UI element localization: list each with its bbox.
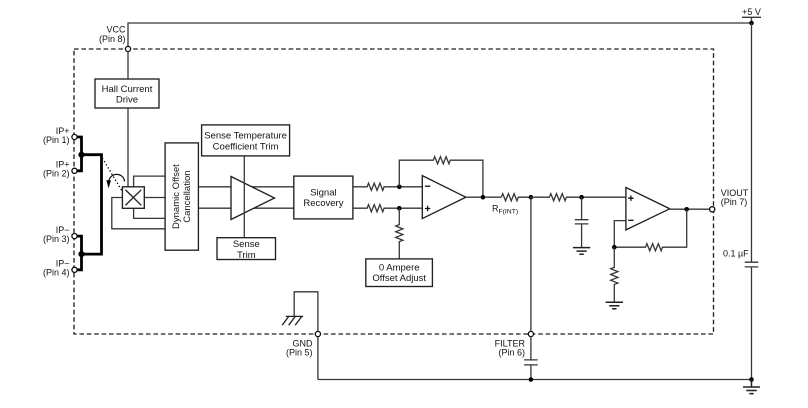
IP- (Pin 3) label bbox=[43, 225, 70, 244]
svg-text:Coefficient Trim: Coefficient Trim bbox=[213, 141, 279, 152]
wire: cap tap down to capacitor C1 bbox=[581, 197, 583, 220]
junction dot at +5V rail bbox=[749, 21, 754, 26]
wire: Hall element bottom to Dynamic Offset Cancellation bbox=[134, 208, 166, 218]
svg-text:(Pin 3): (Pin 3) bbox=[43, 234, 70, 244]
svg-text:Sense Temperature: Sense Temperature bbox=[204, 131, 287, 142]
svg-text:Hall Current: Hall Current bbox=[102, 84, 153, 95]
Hall element (X box) bbox=[122, 187, 144, 209]
wire: internal ground net to GND pin bbox=[294, 292, 318, 380]
junction dot cap tap bbox=[579, 195, 584, 200]
svg-text:Drive: Drive bbox=[116, 95, 138, 106]
svg-text:(Pin 8): (Pin 8) bbox=[99, 34, 126, 44]
svg-text:0 Ampere: 0 Ampere bbox=[379, 263, 420, 274]
junction dot current path bottom bbox=[78, 251, 84, 257]
dashed IC boundary bbox=[74, 49, 714, 334]
svg-text:Offset Adjust: Offset Adjust bbox=[372, 273, 426, 284]
svg-text:Signal: Signal bbox=[310, 187, 336, 198]
VCC label bbox=[99, 25, 126, 44]
svg-text:+5 V: +5 V bbox=[742, 7, 761, 17]
svg-text:(Pin 4): (Pin 4) bbox=[43, 268, 70, 278]
svg-text:0.1 µF: 0.1 µF bbox=[723, 249, 749, 259]
svg-text:(Pin 7): (Pin 7) bbox=[721, 197, 748, 207]
op-amp U2 buffer bbox=[626, 188, 670, 230]
wire: VCC pin to Hall Current Drive bbox=[127, 52, 129, 79]
svg-text:(Pin 1): (Pin 1) bbox=[43, 135, 70, 145]
junction dot filter tap bbox=[529, 195, 534, 200]
GND label bbox=[286, 339, 313, 358]
resistor R7 to ground bbox=[611, 247, 618, 302]
wire: FILTER pin to external capacitor bbox=[530, 337, 532, 360]
wire: ground rail along bottom bbox=[318, 379, 752, 381]
capacitor C1 bbox=[575, 220, 589, 224]
VIOUT label bbox=[721, 188, 749, 207]
chassis ground symbol bbox=[282, 316, 303, 325]
IP- (Pin 4) label bbox=[43, 259, 70, 278]
pin VCC (Pin 8) bbox=[125, 46, 130, 51]
pin FILTER (Pin 6) bbox=[528, 331, 533, 336]
svg-text:Recovery: Recovery bbox=[303, 198, 343, 209]
junction dot U2 output bbox=[684, 207, 689, 212]
amplifier A1 bbox=[231, 177, 275, 220]
+5V supply terminal bar bbox=[742, 17, 761, 23]
dotted flux coupling arrow bbox=[103, 159, 122, 191]
pin VIOUT (Pin 7) bbox=[710, 207, 715, 212]
wire: op-amp U2 output to VIOUT bbox=[670, 208, 710, 210]
pin IP- (Pin 3) bbox=[72, 234, 77, 239]
wire: DOC to signal recovery (bottom) bbox=[198, 207, 293, 209]
Signal Recovery box bbox=[294, 176, 353, 219]
feedback wire U2 with resistor R6 bbox=[614, 209, 686, 251]
earth ground symbol (C1) bbox=[573, 248, 590, 255]
thick current path pins 3-4 bbox=[77, 236, 81, 270]
wire and resistor R1: signal recovery to op-amp minus bbox=[353, 183, 422, 190]
wire: filter branch down to FILTER pin bbox=[530, 197, 532, 334]
earth ground symbol (supply) bbox=[743, 380, 760, 394]
wire: op-amp U1 output bbox=[466, 196, 502, 198]
external filter capacitor C2 bbox=[524, 360, 538, 365]
pin IP+ (Pin 2) bbox=[72, 168, 77, 173]
wire: Hall element right to Dynamic Offset Cancellation bbox=[144, 197, 165, 199]
Dynamic Offset Cancellation box bbox=[165, 143, 198, 250]
FILTER label bbox=[495, 338, 526, 357]
svg-text:(Pin 6): (Pin 6) bbox=[498, 347, 525, 357]
wire: capacitor C2 to ground rail bbox=[530, 365, 532, 380]
pin GND (Pin 5) bbox=[315, 331, 320, 336]
wire and resistor R2: signal recovery to op-amp plus bbox=[353, 205, 422, 212]
svg-text:Trim: Trim bbox=[237, 250, 256, 261]
thick current path pins 1-2 bbox=[77, 137, 81, 171]
Sense Temperature Coefficient Trim box bbox=[202, 125, 290, 156]
wire: +5V rail down to bypass capacitor bbox=[751, 23, 753, 262]
svg-text:Sense: Sense bbox=[233, 239, 260, 250]
resistor RF(INT) bbox=[501, 194, 531, 201]
op-amp U1 bbox=[422, 176, 466, 219]
junction dot C2 ground bbox=[529, 377, 534, 382]
svg-text:RF(INT): RF(INT) bbox=[492, 204, 518, 216]
junction dot current path top bbox=[78, 152, 84, 158]
earth ground symbol (R7) bbox=[606, 302, 623, 309]
svg-text:Cancellation: Cancellation bbox=[182, 170, 193, 222]
wire: bypass capacitor to ground rail bbox=[751, 267, 753, 380]
wire: VCC pin up and over to +5V rail bbox=[128, 23, 752, 49]
junction dot offset tap bbox=[397, 206, 402, 211]
0 Ampere Offset Adjust box bbox=[366, 259, 433, 287]
wire and resistor R5 to buffer bbox=[531, 194, 626, 201]
wire and resistor R4 down to offset adjust bbox=[396, 208, 403, 259]
wire: temperature trim through amplifier to sense trim bbox=[243, 156, 245, 238]
arc arrowhead bbox=[106, 180, 111, 188]
junction dot feedback tap bbox=[397, 185, 402, 190]
junction dot feedback divider bbox=[612, 245, 617, 250]
svg-text:(Pin 2): (Pin 2) bbox=[43, 169, 70, 179]
wire: Hall Current Drive down to Hall element bbox=[127, 108, 129, 187]
wire: Hall element left loop to Dynamic Offset Cancellation bbox=[112, 198, 165, 229]
svg-text:Dynamic Offset: Dynamic Offset bbox=[171, 164, 182, 229]
IP+ (Pin 1) label bbox=[43, 126, 70, 145]
Hall Current Drive box bbox=[95, 79, 159, 108]
wire: capacitor C1 to ground bbox=[581, 224, 583, 248]
wire: DOC to signal recovery (top) bbox=[198, 186, 293, 188]
flux rotation arc bbox=[109, 174, 125, 182]
wire: Hall element top to Dynamic Offset Cancellation bbox=[134, 176, 166, 187]
pin IP+ (Pin 1) bbox=[72, 134, 77, 139]
capacitor C_BYP 0.1 uF bbox=[745, 262, 759, 267]
pin IP- (Pin 4) bbox=[72, 267, 77, 272]
junction dot U1 output bbox=[481, 195, 486, 200]
svg-text:(Pin 5): (Pin 5) bbox=[286, 348, 313, 358]
Sense Trim box bbox=[217, 238, 276, 261]
feedback loop wire with resistor R3 bbox=[399, 157, 483, 198]
IP+ (Pin 2) label bbox=[43, 160, 70, 179]
junction dot ground rail right bbox=[749, 377, 754, 382]
thick current path link segment bbox=[82, 155, 102, 254]
